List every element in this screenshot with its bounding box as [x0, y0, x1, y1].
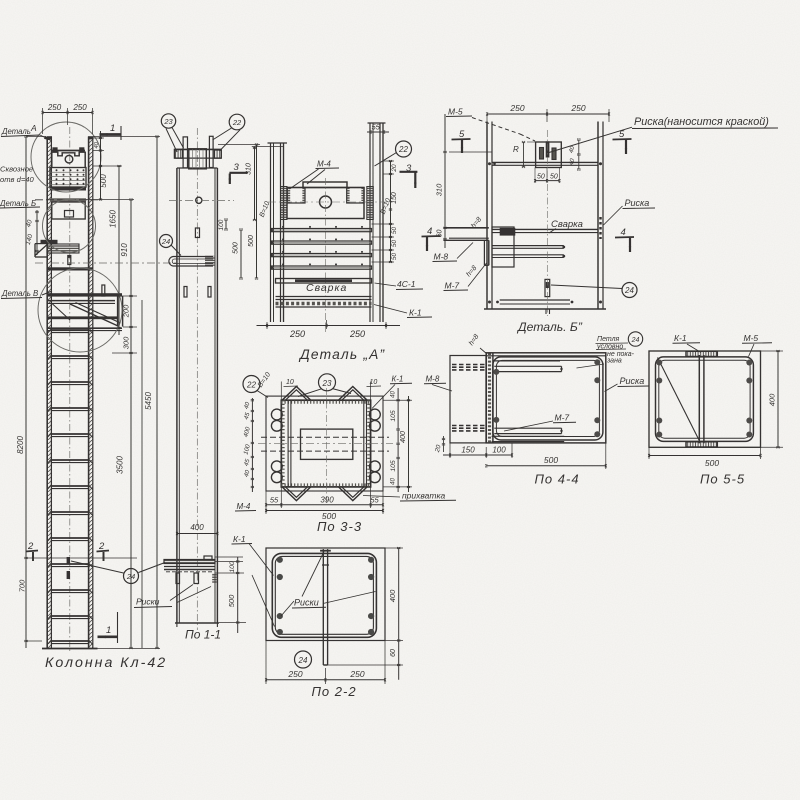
svg-text:Деталь „А”: Деталь „А”	[298, 347, 386, 362]
svg-text:500: 500	[99, 174, 108, 188]
svg-text:50: 50	[391, 253, 398, 261]
svg-text:Петля: Петля	[597, 336, 620, 343]
svg-text:300: 300	[121, 336, 130, 349]
svg-text:250: 250	[287, 669, 302, 679]
svg-text:3: 3	[234, 162, 240, 173]
svg-text:По 4-4: По 4-4	[535, 472, 580, 487]
svg-text:Деталь В: Деталь В	[1, 289, 38, 298]
svg-text:500: 500	[248, 235, 255, 247]
svg-text:К-1: К-1	[233, 534, 246, 544]
svg-text:105: 105	[390, 460, 397, 472]
svg-text:55: 55	[270, 496, 279, 505]
svg-text:400: 400	[398, 431, 407, 443]
svg-text:50: 50	[391, 227, 398, 235]
svg-text:А: А	[30, 123, 37, 133]
svg-text:50: 50	[537, 174, 545, 181]
svg-text:400: 400	[767, 393, 776, 406]
svg-text:М-7: М-7	[445, 281, 460, 291]
svg-text:500: 500	[233, 242, 240, 254]
svg-text:250: 250	[570, 103, 585, 113]
svg-text:500: 500	[705, 458, 719, 468]
svg-text:390: 390	[320, 496, 334, 505]
svg-text:55: 55	[372, 123, 381, 132]
svg-text:Риски: Риски	[136, 597, 160, 607]
svg-text:зана: зана	[606, 358, 622, 365]
svg-text:700: 700	[18, 579, 27, 592]
svg-text:22: 22	[398, 145, 408, 154]
svg-text:По 5-5: По 5-5	[700, 472, 745, 487]
svg-text:К-1: К-1	[409, 308, 422, 318]
svg-text:М-8: М-8	[434, 252, 449, 262]
svg-text:55: 55	[370, 496, 379, 505]
svg-text:24: 24	[631, 337, 640, 344]
svg-text:60: 60	[390, 649, 397, 657]
svg-text:22: 22	[246, 381, 256, 390]
svg-text:500: 500	[227, 594, 236, 607]
svg-text:910: 910	[120, 243, 129, 257]
svg-text:М-4: М-4	[237, 502, 251, 511]
svg-text:250: 250	[349, 329, 365, 339]
svg-text:прихватка: прихватка	[402, 491, 445, 501]
svg-text:310: 310	[434, 183, 443, 196]
svg-text:Деталь. Б”: Деталь. Б”	[516, 320, 583, 334]
svg-text:По 2-2: По 2-2	[312, 684, 357, 699]
svg-text:100: 100	[492, 446, 506, 455]
svg-text:Риска: Риска	[620, 376, 645, 386]
svg-text:Сварка: Сварка	[306, 282, 347, 294]
svg-text:Риска(наносится краской): Риска(наносится краской)	[634, 116, 769, 128]
svg-text:150: 150	[391, 192, 398, 204]
svg-text:Риска: Риска	[625, 198, 650, 208]
svg-text:К-1: К-1	[392, 375, 404, 384]
svg-text:По 3-3: По 3-3	[317, 519, 362, 534]
svg-text:Сквозное: Сквозное	[0, 165, 33, 174]
svg-text:4С-1: 4С-1	[397, 279, 416, 289]
svg-text:23: 23	[322, 379, 332, 388]
svg-text:250: 250	[72, 103, 87, 112]
svg-text:1: 1	[110, 123, 115, 134]
svg-text:50: 50	[391, 240, 398, 248]
svg-text:24: 24	[161, 237, 170, 246]
svg-text:10: 10	[286, 379, 294, 386]
svg-text:40: 40	[390, 478, 397, 485]
svg-text:20: 20	[391, 164, 398, 173]
svg-text:22: 22	[232, 118, 242, 127]
svg-text:400: 400	[388, 589, 397, 602]
svg-text:250: 250	[509, 103, 524, 113]
svg-text:М-7: М-7	[555, 413, 570, 423]
svg-text:250: 250	[349, 669, 364, 679]
svg-text:500: 500	[544, 455, 558, 465]
svg-text:М-8: М-8	[426, 375, 440, 384]
svg-text:Деталь Б: Деталь Б	[0, 199, 36, 208]
svg-text:По 1-1: По 1-1	[185, 628, 221, 642]
svg-text:100: 100	[218, 219, 225, 230]
svg-text:200: 200	[121, 304, 130, 318]
svg-text:R: R	[513, 145, 519, 154]
svg-text:1650: 1650	[109, 210, 118, 228]
svg-text:Деталь: Деталь	[1, 127, 31, 136]
svg-text:М-5: М-5	[744, 333, 759, 343]
svg-text:250: 250	[289, 329, 305, 339]
svg-text:5450: 5450	[144, 392, 153, 410]
svg-text:150: 150	[461, 446, 475, 455]
svg-text:310: 310	[246, 163, 253, 175]
svg-text:100: 100	[229, 561, 236, 573]
svg-text:К-1: К-1	[674, 333, 687, 343]
svg-text:40: 40	[94, 141, 100, 148]
svg-text:50: 50	[550, 174, 558, 181]
svg-text:М-5: М-5	[448, 107, 463, 117]
svg-text:24: 24	[624, 286, 634, 295]
svg-text:250: 250	[47, 103, 62, 112]
svg-text:3500: 3500	[116, 456, 125, 474]
svg-text:23: 23	[163, 117, 173, 126]
svg-text:400: 400	[190, 523, 204, 532]
svg-text:8200: 8200	[16, 436, 25, 454]
svg-text:105: 105	[390, 410, 397, 422]
svg-text:Колонна Кл-42: Колонна Кл-42	[45, 655, 167, 671]
svg-text:24: 24	[126, 572, 135, 581]
svg-text:Риски: Риски	[294, 598, 319, 608]
svg-text:40: 40	[390, 391, 397, 398]
svg-text:1: 1	[106, 625, 111, 636]
svg-text:24: 24	[298, 656, 308, 665]
svg-text:М-4: М-4	[317, 160, 331, 169]
svg-text:отв d=40: отв d=40	[0, 175, 35, 184]
